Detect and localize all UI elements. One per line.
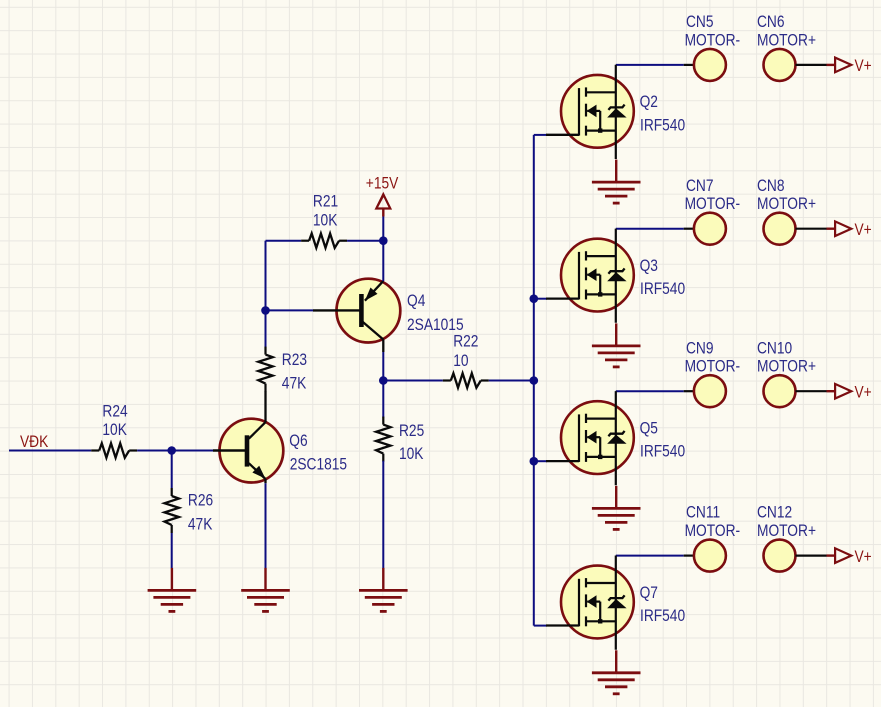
svg-text:MOTOR-: MOTOR- bbox=[685, 522, 741, 541]
svg-text:R21: R21 bbox=[313, 192, 338, 211]
svg-text:CN5: CN5 bbox=[686, 13, 714, 32]
svg-text:IRF540: IRF540 bbox=[640, 116, 685, 135]
svg-text:V+: V+ bbox=[855, 221, 872, 240]
svg-text:Q5: Q5 bbox=[640, 419, 658, 438]
svg-text:R22: R22 bbox=[453, 332, 478, 351]
svg-text:MOTOR-: MOTOR- bbox=[685, 357, 741, 376]
svg-text:MOTOR+: MOTOR+ bbox=[757, 195, 816, 214]
svg-text:IRF540: IRF540 bbox=[640, 442, 685, 461]
svg-text:MOTOR+: MOTOR+ bbox=[757, 31, 816, 50]
svg-text:Q3: Q3 bbox=[640, 257, 658, 276]
svg-text:IRF540: IRF540 bbox=[640, 280, 685, 299]
svg-text:Q7: Q7 bbox=[640, 584, 658, 603]
svg-text:V+: V+ bbox=[855, 383, 872, 402]
svg-text:R23: R23 bbox=[282, 351, 307, 370]
svg-text:MOTOR-: MOTOR- bbox=[685, 195, 741, 214]
svg-text:2SC1815: 2SC1815 bbox=[290, 455, 347, 474]
svg-text:CN7: CN7 bbox=[686, 177, 714, 196]
svg-text:CN9: CN9 bbox=[686, 339, 714, 358]
svg-text:CN8: CN8 bbox=[757, 177, 785, 196]
svg-text:VĐK: VĐK bbox=[20, 433, 49, 452]
svg-text:R24: R24 bbox=[102, 402, 128, 421]
svg-text:R25: R25 bbox=[399, 422, 424, 441]
svg-text:CN12: CN12 bbox=[757, 503, 792, 522]
svg-text:Q2: Q2 bbox=[640, 93, 658, 112]
svg-text:IRF540: IRF540 bbox=[640, 607, 685, 626]
svg-text:Q6: Q6 bbox=[289, 432, 307, 451]
svg-text:MOTOR+: MOTOR+ bbox=[757, 357, 816, 376]
svg-text:+15V: +15V bbox=[366, 174, 399, 193]
svg-text:MOTOR-: MOTOR- bbox=[685, 31, 741, 50]
svg-text:10K: 10K bbox=[102, 421, 127, 440]
svg-text:MOTOR+: MOTOR+ bbox=[757, 522, 816, 541]
svg-text:R26: R26 bbox=[188, 491, 213, 510]
svg-text:V+: V+ bbox=[855, 548, 872, 567]
svg-text:47K: 47K bbox=[188, 515, 213, 534]
svg-text:CN11: CN11 bbox=[686, 503, 720, 522]
svg-text:V+: V+ bbox=[855, 57, 872, 76]
svg-text:CN6: CN6 bbox=[757, 13, 785, 32]
svg-text:Q4: Q4 bbox=[407, 292, 426, 311]
svg-text:10: 10 bbox=[453, 352, 468, 371]
svg-text:47K: 47K bbox=[282, 374, 307, 393]
svg-text:10K: 10K bbox=[313, 211, 338, 230]
svg-text:10K: 10K bbox=[399, 445, 424, 464]
svg-text:CN10: CN10 bbox=[757, 339, 792, 358]
